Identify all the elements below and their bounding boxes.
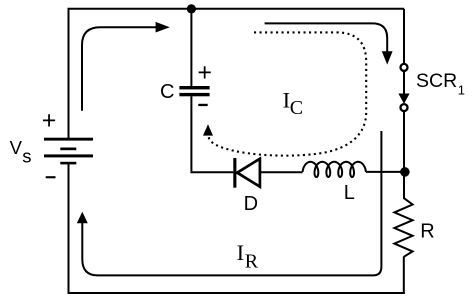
battery V_s plates <box>44 138 93 165</box>
svg-text:V: V <box>10 137 23 158</box>
I_C dotted loop <box>209 32 367 155</box>
svg-text:R: R <box>245 250 259 272</box>
I_R loop arrowhead <box>77 212 88 224</box>
svg-text:+: + <box>42 107 57 135</box>
arrow top-right (current into SCR) <box>265 23 388 52</box>
wire right mid (SCR to resistor) <box>403 111 405 198</box>
svg-text:C: C <box>160 81 174 103</box>
svg-text:SCR: SCR <box>416 70 457 92</box>
arrow top-left (current from battery) <box>82 27 156 111</box>
svg-text:1: 1 <box>458 83 465 98</box>
wire capacitor top lead <box>190 9 192 86</box>
SCR1 cathode circle <box>401 104 408 111</box>
svg-text:I: I <box>237 240 245 265</box>
wire right upper <box>403 9 405 65</box>
resistor R zigzag <box>394 194 412 257</box>
wire diode to coil <box>260 171 303 173</box>
svg-text:L: L <box>344 182 355 204</box>
inductor L coil <box>303 162 366 177</box>
SCR1 triangle <box>398 94 409 104</box>
SCR1 anode circle <box>401 64 408 71</box>
svg-text:+: + <box>197 58 212 86</box>
wire left upper <box>68 9 70 139</box>
svg-text:R: R <box>420 220 434 242</box>
battery minus sign <box>46 176 56 178</box>
capacitor minus sign <box>198 104 207 106</box>
wire capacitor bottom lead <box>190 96 192 171</box>
node junction top (cap tap) <box>187 4 196 13</box>
diode D triangle <box>237 159 260 187</box>
svg-text:s: s <box>22 146 31 167</box>
svg-text:C: C <box>290 97 303 119</box>
diode D cathode bar <box>233 158 236 188</box>
svg-text:D: D <box>244 193 258 215</box>
wire bottom <box>68 292 405 294</box>
wire left lower <box>68 163 70 293</box>
wire coil to right <box>366 171 405 173</box>
wire diode row left <box>190 171 233 173</box>
I_C loop arrowhead <box>203 124 213 135</box>
wire top <box>68 8 405 10</box>
I_R loop wire <box>82 131 381 275</box>
node junction right (coil to R) <box>400 167 410 177</box>
SCR1 wire between <box>403 71 405 94</box>
wire right lower (resistor to bottom) <box>403 257 405 294</box>
capacitor C plates <box>179 86 209 89</box>
